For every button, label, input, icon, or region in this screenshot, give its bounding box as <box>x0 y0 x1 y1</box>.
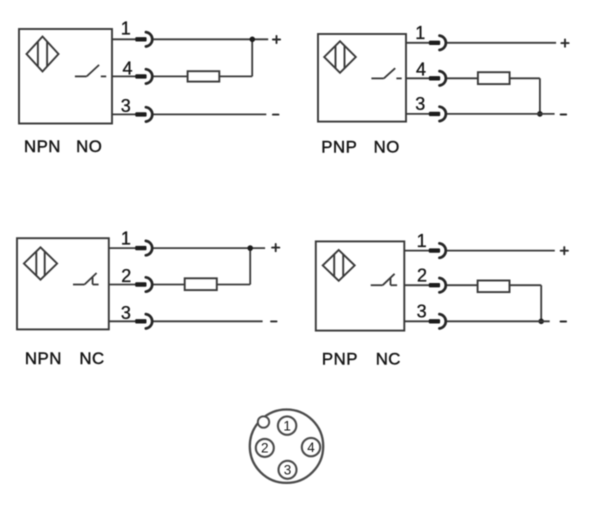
connector pin 4 hole <box>302 438 320 456</box>
NO switch contact (NPN NO) <box>75 65 106 77</box>
svg-text:4: 4 <box>416 60 426 80</box>
connector pin 2 plug (NPN NC) <box>135 282 146 286</box>
connector pin 2 plug (PNP NC) <box>429 283 440 287</box>
wire pin3 from box to connector (PNP NC) <box>404 320 429 322</box>
connector pin 3 hole <box>279 461 297 479</box>
minus supply symbol (NPN NO) <box>273 114 279 116</box>
wire pin3 from box to connector (PNP NO) <box>406 113 430 115</box>
connector pin 4 plug (NPN NO) <box>135 74 146 78</box>
NC switch contact (NPN NC) <box>73 273 99 285</box>
plus supply symbol (PNP NO) <box>561 40 568 47</box>
wire pin1 to + node (PNP NO) <box>447 42 556 44</box>
NO switch contact (PNP NO) <box>371 68 401 78</box>
connector pin 3 plug (PNP NO) <box>429 112 440 116</box>
sensor body box (NPN NC) <box>17 238 109 329</box>
wire pin4 to load (NPN NO) <box>153 75 187 77</box>
svg-text:NPN: NPN <box>25 349 62 368</box>
proximity sensor symbol (diamond) NPN NC <box>24 247 57 279</box>
svg-text:4: 4 <box>307 440 315 455</box>
proximity sensor symbol (diamond) PNP NO <box>324 41 356 73</box>
connector pin 1 plug (PNP NC) <box>429 248 440 252</box>
load resistor (NPN NO) <box>188 71 220 81</box>
connector pin 4 plug (PNP NO) <box>429 76 440 80</box>
load resistor (PNP NO) <box>478 72 510 84</box>
svg-text:3: 3 <box>284 463 292 478</box>
connector pin 2 socket arc (NPN NC) <box>146 277 152 291</box>
connector pin 3 plug (NPN NO) <box>135 112 146 116</box>
junction dot on - rail (PNP NO) <box>537 111 543 117</box>
svg-text:1: 1 <box>121 19 131 39</box>
svg-text:3: 3 <box>417 302 427 322</box>
wire pin2 from box to connector (PNP NC) <box>404 284 429 286</box>
svg-text:3: 3 <box>121 96 131 116</box>
connector pin 3 socket arc (PNP NO) <box>440 107 446 121</box>
svg-text:3: 3 <box>415 94 425 114</box>
connector pin 4 socket arc (PNP NO) <box>440 71 446 85</box>
wire pin4 to load (PNP NO) <box>447 77 478 79</box>
wire pin3 to - node (PNP NC) <box>447 320 550 322</box>
svg-text:1: 1 <box>283 418 291 433</box>
sensor body box (PNP NC) <box>316 241 405 330</box>
connector pin 1 socket arc (NPN NO) <box>146 32 152 46</box>
wire pin1 to + node (PNP NC) <box>447 250 555 252</box>
connector pin 1 plug (NPN NC) <box>135 246 146 250</box>
junction dot on + rail (NPN NC) <box>247 245 253 251</box>
wire pin3 to - node (NPN NO) <box>153 113 266 115</box>
connector pin 1 plug (PNP NO) <box>429 41 440 45</box>
wire pin1 to + node (NPN NC) <box>153 247 265 249</box>
riser wire to + rail (NPN NC) <box>249 248 251 284</box>
svg-text:3: 3 <box>121 303 131 323</box>
svg-text:2: 2 <box>121 266 131 286</box>
connector pin 3 socket arc (PNP NC) <box>439 314 445 328</box>
dropper wire to - rail (PNP NO) <box>539 78 541 114</box>
sensor body box (NPN NO) <box>19 29 112 124</box>
sensor body box (PNP NO) <box>318 34 406 122</box>
connector pin 3 socket arc (NPN NC) <box>146 314 152 328</box>
wire load to riser (NPN NC) <box>217 284 250 286</box>
wire pin3 to - node (NPN NC) <box>153 320 262 322</box>
svg-text:4: 4 <box>122 59 132 79</box>
svg-text:1: 1 <box>415 23 425 43</box>
wire pin2 from box to connector (NPN NC) <box>109 284 136 286</box>
connector pin 3 plug (NPN NC) <box>135 319 146 323</box>
connector pin 2 hole <box>256 439 274 457</box>
connector pin 1 socket arc (PNP NO) <box>440 36 446 50</box>
svg-text:NC: NC <box>79 349 104 368</box>
junction dot on - rail (PNP NC) <box>538 319 544 325</box>
wire load to dropper (PNP NC) <box>510 284 542 286</box>
wire pin1 from box to connector (NPN NO) <box>112 38 136 40</box>
svg-text:NPN: NPN <box>24 137 61 156</box>
connector pin 1 plug (NPN NO) <box>135 37 146 41</box>
svg-text:1: 1 <box>121 228 131 248</box>
plus supply symbol (PNP NC) <box>561 247 568 254</box>
wire load to riser (NPN NO) <box>219 75 252 77</box>
riser wire to + rail (NPN NO) <box>251 39 253 76</box>
connector outer shell circle <box>250 410 323 483</box>
minus supply symbol (PNP NO) <box>561 114 567 116</box>
wire pin1 from box to connector (PNP NO) <box>406 42 430 44</box>
connector pin 4 socket arc (NPN NO) <box>146 69 152 83</box>
load resistor (NPN NC) <box>185 278 217 290</box>
wire pin2 to load (PNP NC) <box>447 284 478 286</box>
NC switch contact (PNP NC) <box>371 274 397 285</box>
connector pin 2 socket arc (PNP NC) <box>439 278 445 292</box>
connector pin 3 socket arc (NPN NO) <box>146 107 152 121</box>
connector pin 1 socket arc (PNP NC) <box>439 243 445 257</box>
wire pin4 from box to connector (NPN NO) <box>112 75 136 77</box>
wire pin3 from box to connector (NPN NC) <box>109 320 136 322</box>
load resistor (PNP NC) <box>478 281 510 293</box>
wire pin3 to - node (PNP NO) <box>447 113 555 115</box>
wire load to dropper (PNP NO) <box>510 77 540 79</box>
svg-text:PNP: PNP <box>322 350 358 369</box>
wire pin4 from box to connector (PNP NO) <box>406 77 430 79</box>
wire pin2 to load (NPN NC) <box>153 284 184 286</box>
wire pin1 from box to connector (NPN NC) <box>109 247 136 249</box>
proximity sensor symbol (diamond) PNP NC <box>323 250 355 281</box>
svg-text:NO: NO <box>76 137 102 156</box>
wire pin3 from box to connector (NPN NO) <box>112 113 136 115</box>
svg-text:1: 1 <box>417 231 427 251</box>
keying notch circle <box>258 416 269 427</box>
svg-text:2: 2 <box>417 265 427 285</box>
dropper wire to - rail (PNP NC) <box>540 285 542 321</box>
proximity sensor symbol (diamond) NPN NO <box>27 37 59 72</box>
connector pin 1 socket arc (NPN NC) <box>146 241 152 255</box>
wire pin1 from box to connector (PNP NC) <box>404 250 429 252</box>
plus supply symbol (NPN NC) <box>272 244 279 251</box>
svg-text:2: 2 <box>261 441 269 456</box>
connector pin 1 hole <box>278 416 296 434</box>
plus supply symbol (NPN NO) <box>273 36 280 43</box>
wire pin1 to + node (NPN NO) <box>153 38 268 40</box>
svg-text:PNP: PNP <box>321 138 357 157</box>
svg-text:NC: NC <box>376 350 401 369</box>
junction dot on + rail (NPN NO) <box>250 37 256 43</box>
connector pin 3 plug (PNP NC) <box>429 319 440 323</box>
minus supply symbol (NPN NC) <box>271 320 277 322</box>
svg-text:NO: NO <box>374 138 400 157</box>
minus supply symbol (PNP NC) <box>561 321 567 323</box>
